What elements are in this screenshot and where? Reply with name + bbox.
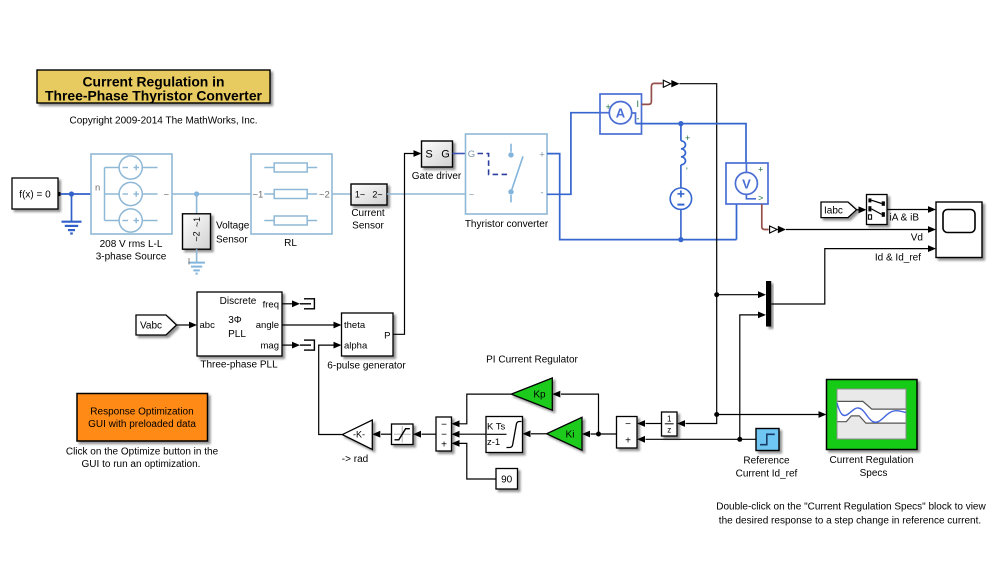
svg-text:Response Optimization: Response Optimization [90,406,193,417]
wire to current regulation specs [717,414,819,416]
svg-text:2~: 2~ [372,190,382,200]
gain -K- (deg to rad) [342,420,372,450]
svg-text:Current Id_ref: Current Id_ref [736,468,798,479]
svg-text:Click on the Optimize button i: Click on the Optimize button in the [66,446,219,457]
svg-text:1~: 1~ [355,190,365,200]
sum block (error) [617,417,638,449]
wire selector to scope [887,209,929,211]
svg-text:K Ts: K Ts [487,421,506,432]
wire angle to 6-pulse theta [282,324,334,326]
wire Kp output into sum top [460,394,512,424]
svg-text:Iabc: Iabc [824,205,843,216]
svg-text:P: P [384,331,390,342]
svg-text:z-1: z-1 [487,437,500,448]
svg-text:~2: ~2 [319,189,330,200]
wire gate driver G to thyristor G (dark blue) [453,153,467,155]
resistor row 3 [264,220,274,222]
wire Vabc to PLL abc [177,324,190,326]
svg-text:z: z [667,426,671,435]
junction on Id line to specs [714,412,719,417]
arrow into measurement line [671,80,679,87]
wire thyristor - to ammeter + (blue) [547,113,600,195]
gate dashed wire [478,154,509,175]
svg-text:G: G [468,149,475,160]
svg-text:~2: ~2 [192,231,202,241]
3-phase source block [91,154,172,234]
discrete-time integrator block [486,417,523,453]
terminator mag [300,340,315,351]
title box [37,70,270,104]
svg-text:iA & iB: iA & iB [890,212,920,223]
svg-text:angle: angle [256,320,279,331]
svg-text:PI Current Regulator: PI Current Regulator [486,354,578,365]
three-phase PLL block [197,292,282,356]
svg-text:~: ~ [164,189,170,200]
left bus [104,168,106,221]
svg-text:-> rad: -> rad [342,454,368,465]
svg-text:3Φ: 3Φ [228,315,242,326]
wire integrator output into sum middle [460,433,487,435]
wire mux output to scope Id & Id_ref [771,249,928,304]
wire sensor to ground (light blue) [196,249,198,262]
step source Reference Current Id_ref [756,429,779,451]
svg-text:Copyright 2009-2014 The MathWo: Copyright 2009-2014 The MathWorks, Inc. [69,116,257,127]
hollow triangle connector [770,226,778,233]
svg-text:>: > [758,193,763,203]
svg-text:90: 90 [501,474,513,485]
wire thyristor + to bottom rail (blue) [547,154,737,240]
svg-text:+: + [539,150,545,161]
svg-text:-: - [637,114,640,124]
svg-text:n: n [95,183,100,194]
svg-text:Sensor: Sensor [352,220,384,231]
RL block [251,154,332,234]
wire Ki to integrator [531,433,547,435]
wire 6-pulse P up to gate driver S [393,154,414,335]
wire down to ground [71,194,73,221]
ground under voltage sensor [188,263,205,274]
resistor row 2 [264,193,274,195]
svg-text:G: G [441,149,450,161]
svg-text:V: V [742,176,751,191]
svg-text:~: ~ [469,189,475,200]
inductor [681,124,686,188]
ammeter output wire to voltmeter + (blue) [636,124,747,163]
gain Kp [511,378,552,410]
wire bottom rail up to voltmeter - [736,204,738,240]
svg-text:Current: Current [351,208,385,219]
svg-text:f(x) = 0: f(x) = 0 [19,189,51,200]
svg-text:Thyristor converter: Thyristor converter [465,219,549,230]
svg-text:PLL: PLL [228,329,246,340]
svg-text:Voltage: Voltage [216,221,250,232]
terminator freq [300,298,315,309]
svg-text:Id & Id_ref: Id & Id_ref [875,253,921,264]
6-pulse generator block [342,313,394,356]
svg-text:I: I [637,99,640,109]
wire Iabc to selector [857,209,860,211]
source circle phase C [119,209,142,232]
svg-text:+: + [441,439,447,450]
response optimization GUI block [77,394,208,442]
svg-text:Kp: Kp [533,390,546,401]
svg-text:Gate driver: Gate driver [412,171,462,182]
constant 90 block [496,469,518,490]
svg-text:A: A [616,106,626,121]
wire solver to node n (dark blue) [61,193,120,195]
svg-text:GUI to run an optimization.: GUI to run an optimization. [82,459,201,470]
resistor row 1 [264,167,274,169]
svg-text:1: 1 [667,414,672,423]
svg-text:+: + [625,435,631,446]
mux [766,281,771,327]
current regulation specs block [827,380,918,450]
wire step to error sum plus [646,438,757,440]
wire alpha from -K- gain [319,345,343,434]
ammeter block [600,94,642,134]
svg-text:freq: freq [263,299,279,310]
svg-text:alpha: alpha [344,340,368,351]
svg-text:abc: abc [200,320,216,331]
svg-text:Three-Phase Thyristor Converte: Three-Phase Thyristor Converter [45,88,263,104]
svg-text:S: S [425,149,432,161]
junction to voltage sensor [194,191,199,196]
ground (electrical reference) [62,222,82,234]
svg-text:mag: mag [261,340,279,351]
saturation block [392,424,414,445]
solver block f(x)=0 [12,178,61,209]
voltmeter measurement wire (dark red) [762,204,769,230]
wire RL to current sensor [332,193,351,195]
wire error sum output to Ki with branch to Kp [591,433,617,435]
svg-text:the desired response to a step: the desired response to a step change in… [719,515,981,526]
wire freq to terminator [282,303,292,305]
hollow triangle connector [663,80,671,87]
svg-text:Discrete: Discrete [220,296,257,307]
wire saturation to -K- [381,433,392,435]
svg-text:l: l [188,257,190,267]
svg-text:~1: ~1 [253,189,264,200]
svg-text:GUI with preloaded data: GUI with preloaded data [88,419,196,430]
voltmeter block [726,163,768,204]
wire source to RL (light blue) [172,193,251,195]
svg-text:theta: theta [344,320,366,331]
Iabc from tag [821,202,857,218]
node junction at ground tap [69,191,74,196]
selector block [867,195,888,225]
svg-text:Ki: Ki [566,429,575,440]
wire sum to saturation [422,433,437,435]
svg-text:Current Regulation: Current Regulation [830,455,914,466]
svg-text:Double-click on the "Current R: Double-click on the "Current Regulation … [716,501,986,512]
sum block (regulator) [436,417,452,451]
svg-text:Sensor: Sensor [216,234,248,245]
junction to inductor [678,121,683,126]
+/- marks [123,165,140,224]
wire mag to terminator [282,344,292,346]
scope block [936,202,982,258]
Vd wire to scope [786,229,929,231]
svg-text:': ' [686,166,688,176]
voltage sensor block [183,214,211,249]
current sensor block [351,184,387,205]
wire current sensor to thyristor ~ [387,193,466,195]
junction at bottom rail [678,237,683,242]
svg-text:Vabc: Vabc [140,321,162,332]
wire 1/z to error sum minus [646,423,662,425]
source circle phase B [119,182,142,205]
switch symbol [508,144,523,203]
Id measurement wire down (black) [680,84,717,424]
svg-text:Vd: Vd [911,232,923,243]
svg-text:−: − [625,419,631,430]
wire step junction up to mux input 2 [740,315,759,439]
wire to mux input 1 [717,294,759,296]
svg-text:Three-phase PLL: Three-phase PLL [200,359,278,370]
svg-text:RL: RL [284,238,297,249]
svg-text:Specs: Specs [860,468,888,479]
svg-text:~1: ~1 [192,217,202,227]
svg-text:3-phase Source: 3-phase Source [96,251,167,262]
svg-text:208 V rms L-L: 208 V rms L-L [100,239,163,250]
source circle phase A [119,156,142,179]
Vabc from tag [136,315,177,335]
svg-text:+: + [758,165,763,175]
dc current source [670,188,691,240]
wire 90 into sum bottom [460,443,497,479]
svg-text:6-pulse generator: 6-pulse generator [327,360,406,371]
arrow on Vd line [778,226,786,233]
svg-text:-: - [540,188,543,199]
unit delay 1/z block [662,412,678,436]
gain Ki [547,417,582,450]
junction on Id line to mux [714,292,719,297]
svg-text:+: + [685,133,690,143]
ammeter I measurement wire (dark red) [642,83,663,104]
thyristor converter block [466,134,548,214]
svg-text:+: + [606,102,611,112]
svg-text:-K-: -K- [353,430,365,440]
svg-text:Reference: Reference [743,455,790,466]
gate driver block [422,141,453,167]
